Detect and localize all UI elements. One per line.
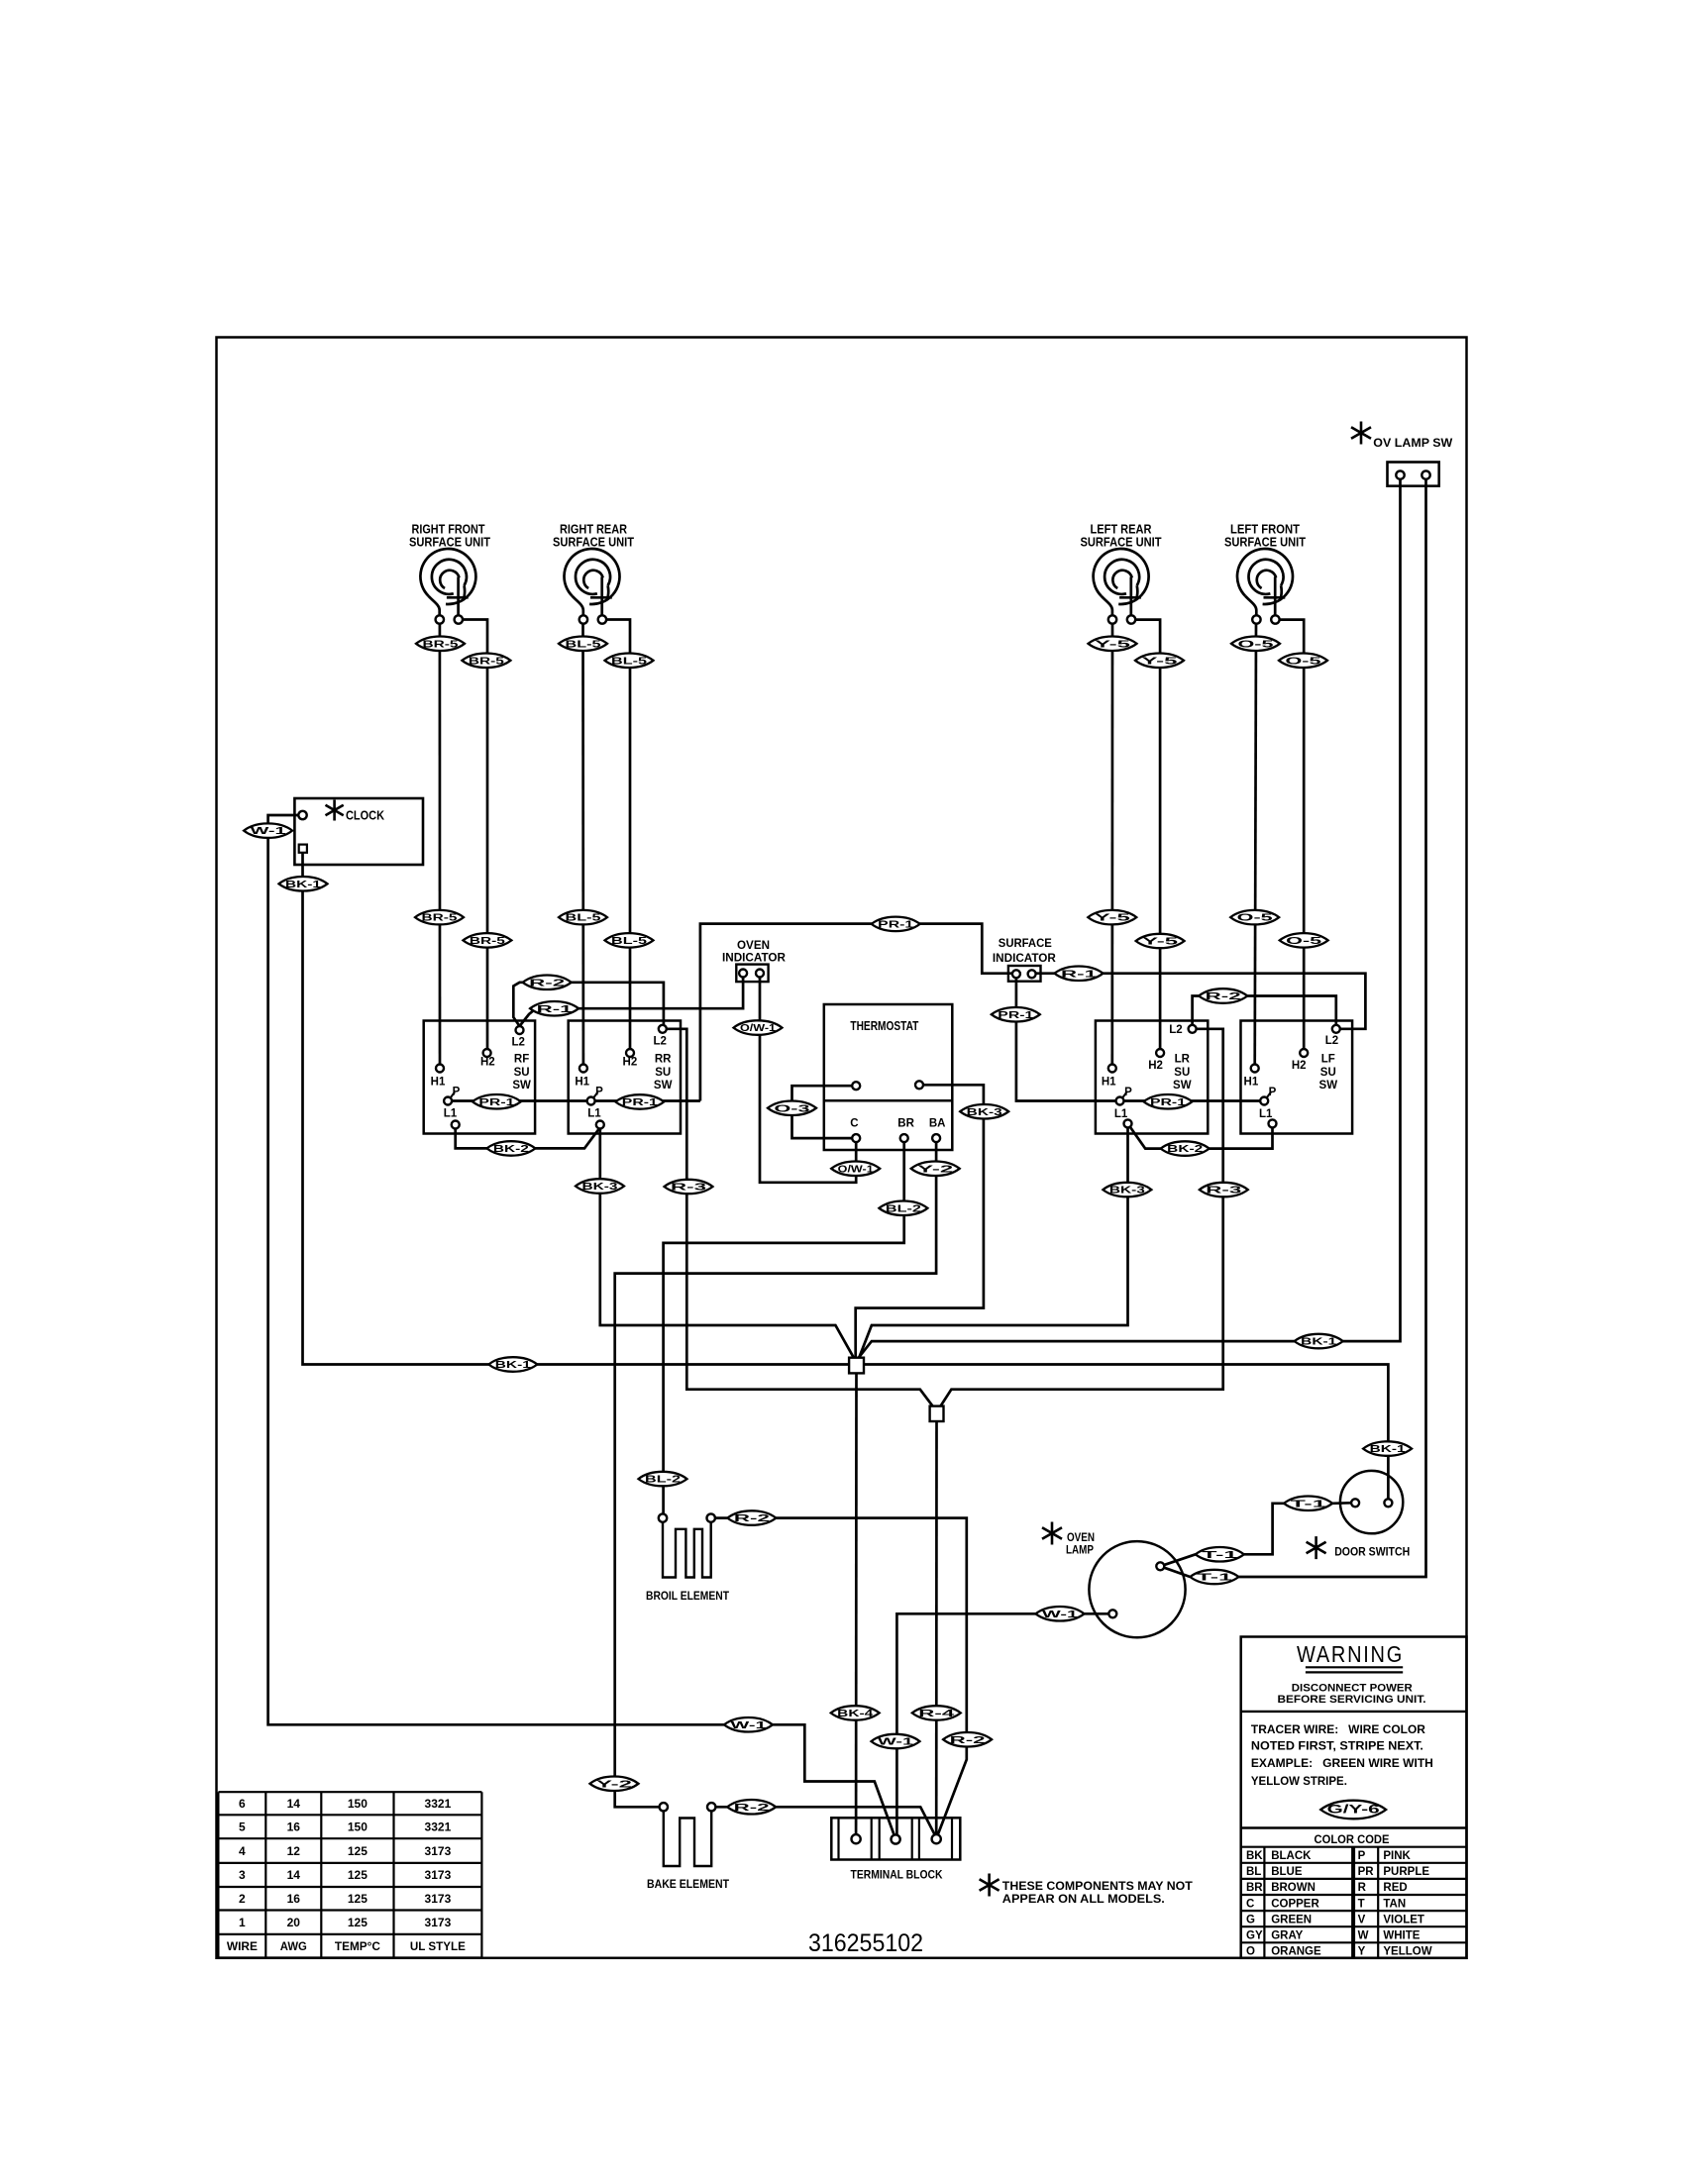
svg-text:BK-1: BK-1 (1301, 1336, 1336, 1348)
wire R-3 from L2 RR to junction node 2 (667, 1029, 933, 1406)
svg-text:3173: 3173 (425, 1892, 452, 1906)
svg-text:6: 6 (239, 1797, 246, 1811)
svg-text:L1: L1 (1114, 1108, 1128, 1120)
capsule label PR-1 top (872, 917, 920, 932)
svg-text:150: 150 (348, 1797, 368, 1811)
svg-text:316255102: 316255102 (808, 1929, 923, 1957)
capsule label BL-5 a (559, 637, 607, 652)
wire BK-1 junction node 1 to oven lamp switch (859, 479, 1401, 1358)
capsule label PR-1 LR (1144, 1094, 1193, 1109)
svg-text:RR: RR (655, 1054, 672, 1066)
asterisk note (980, 1874, 1000, 1897)
svg-text:THERMOSTAT: THERMOSTAT (850, 1019, 918, 1033)
svg-text:PURPLE: PURPLE (1383, 1866, 1429, 1878)
svg-text:CLOCK: CLOCK (346, 809, 384, 823)
svg-text:L1: L1 (587, 1108, 601, 1120)
svg-text:Y-2: Y-2 (596, 1778, 632, 1790)
thermostat upper terminals (852, 1082, 860, 1090)
svg-text:3173: 3173 (425, 1844, 452, 1858)
capsule label W-1 oven lamp (1036, 1607, 1085, 1621)
capsule label Y-5 b (1135, 654, 1184, 669)
capsule label R-1 left (530, 1001, 579, 1016)
LF switch terminals H1 H2 L2 P L1 (1251, 1065, 1259, 1073)
capsule label PR-1 surface indicator (992, 1007, 1040, 1022)
wire PR-1 from surface indicator to P of LR LF (1016, 978, 1260, 1100)
wire BL-5 right-rear H2 (605, 620, 630, 1054)
wire BK-3 thermostat upper-right to junction node 1 (856, 1085, 984, 1357)
asterisk for door switch (1307, 1536, 1326, 1559)
capsule label BR-5 c (415, 910, 464, 925)
svg-text:3173: 3173 (425, 1916, 452, 1929)
svg-text:Y-2: Y-2 (917, 1163, 953, 1175)
wire T-1 diagonal into oven lamp terminal (1160, 1566, 1190, 1577)
svg-text:BK-4: BK-4 (837, 1708, 873, 1719)
capsule label R-3 RF (665, 1180, 713, 1194)
svg-text:BLUE: BLUE (1271, 1866, 1303, 1878)
svg-text:LF: LF (1321, 1054, 1335, 1066)
svg-text:P: P (595, 1087, 603, 1098)
oven indicator box (736, 965, 768, 983)
svg-text:R-2: R-2 (734, 1802, 770, 1814)
svg-text:O/W-1: O/W-1 (740, 1022, 776, 1034)
svg-text:SW: SW (1319, 1080, 1338, 1092)
terminals of RIGHT REAR (579, 615, 587, 623)
svg-text:BR-5: BR-5 (469, 655, 504, 667)
LR switch terminals H1 H2 L2 P L1 (1108, 1065, 1116, 1073)
page border frame (217, 338, 1467, 1958)
wire gauge table (218, 1791, 481, 1793)
wire BK-3 from L1 RR to junction node 1 (600, 1129, 854, 1358)
capsule label T-1 lower (1190, 1570, 1238, 1584)
svg-text:BL-5: BL-5 (566, 638, 601, 650)
svg-text:H1: H1 (1102, 1077, 1116, 1089)
door switch circle (1340, 1471, 1403, 1533)
svg-text:W: W (1358, 1930, 1369, 1942)
surface unit coil RIGHT REAR (565, 549, 620, 604)
svg-text:SW: SW (654, 1080, 673, 1092)
capsule label BK-1 left (488, 1357, 537, 1372)
capsule label BK-1 right (1295, 1334, 1343, 1349)
switch box RF SU SW (424, 1021, 535, 1134)
thermostat internal divider (824, 1099, 953, 1102)
svg-text:3321: 3321 (425, 1797, 452, 1811)
wire BR-5 right-front H2 (463, 620, 487, 1054)
asterisk for oven lamp (1042, 1522, 1062, 1545)
warning panel box (1241, 1637, 1467, 1958)
svg-text:BL-2: BL-2 (886, 1202, 921, 1214)
capsule label R-2 broil (727, 1510, 776, 1525)
capsule label R-2 bake (727, 1800, 776, 1815)
oven lamp terminals (1108, 1610, 1116, 1617)
svg-text:TAN: TAN (1383, 1898, 1406, 1910)
switch box RR SU SW (569, 1021, 681, 1134)
svg-text:3: 3 (239, 1868, 246, 1882)
svg-text:W-1: W-1 (878, 1736, 913, 1748)
svg-text:R-3: R-3 (671, 1182, 706, 1194)
wire BL-2 thermostat BR to broil element (664, 1142, 904, 1514)
svg-text:P: P (1124, 1087, 1132, 1098)
svg-text:BR-5: BR-5 (422, 912, 458, 924)
switch box LR SU SW (1096, 1021, 1208, 1134)
svg-text:R-1: R-1 (1061, 968, 1097, 980)
wire O-5 left-front H2 (1278, 620, 1304, 1053)
svg-text:W-1: W-1 (1042, 1609, 1078, 1620)
capsule label PR-1 RF (473, 1094, 521, 1109)
svg-text:TEMP°C: TEMP°C (335, 1939, 380, 1953)
svg-text:EXAMPLE: GREEN WIRE WITH: EXAMPLE: GREEN WIRE WITH (1251, 1758, 1433, 1770)
capsule label Y-2 bake (590, 1777, 639, 1792)
wire BK-4 junction node 1 down to terminal block (855, 1373, 858, 1835)
svg-text:BA: BA (929, 1118, 946, 1130)
wire R-4 junction node 2 down to terminal block (935, 1421, 938, 1835)
svg-text:WHITE: WHITE (1383, 1930, 1420, 1942)
svg-text:SU: SU (1320, 1067, 1336, 1079)
svg-text:R-2: R-2 (1206, 990, 1241, 1002)
svg-text:SW: SW (512, 1080, 531, 1092)
svg-text:NOTED FIRST, STRIPE NEXT.: NOTED FIRST, STRIPE NEXT. (1251, 1740, 1423, 1752)
svg-text:BK-3: BK-3 (582, 1181, 618, 1193)
wire T-1 oven lamp switch right to oven lamp (1238, 479, 1425, 1577)
capsule label O-3 (768, 1101, 816, 1116)
svg-text:WIRE: WIRE (227, 1939, 258, 1953)
wire R-2 between L2 of LR and LF switches (1193, 996, 1336, 1025)
wire BK-1 from clock across to door switch (303, 853, 1389, 1504)
asterisk for clock (326, 800, 344, 821)
svg-text:BR: BR (1246, 1882, 1263, 1894)
terminals of LEFT REAR (1108, 615, 1116, 623)
terminals of LEFT FRONT (1252, 615, 1260, 623)
capsule label O-5 b (1279, 654, 1327, 669)
svg-text:BK-1: BK-1 (1370, 1443, 1406, 1455)
svg-text:SURFACE: SURFACE (999, 936, 1052, 950)
clock box (294, 798, 423, 865)
svg-text:BK-2: BK-2 (493, 1143, 529, 1155)
svg-text:125: 125 (348, 1844, 368, 1858)
svg-text:16: 16 (287, 1820, 301, 1834)
svg-text:BLACK: BLACK (1271, 1850, 1312, 1862)
RF switch terminals H1 H2 L2 P L1 (436, 1065, 444, 1073)
wire R-1 from L2 of RF to oven indicator (520, 978, 744, 1027)
capsule label W-1 clock (244, 823, 292, 838)
wire W-1 oven lamp to terminal block (896, 1613, 1108, 1835)
svg-text:O-5: O-5 (1237, 912, 1273, 924)
surface unit coil LEFT REAR (1094, 549, 1149, 604)
svg-text:BK: BK (1246, 1850, 1263, 1862)
capsule label BL-2 BR (879, 1201, 927, 1216)
svg-text:LAMP: LAMP (1066, 1543, 1094, 1557)
svg-text:SURFACE UNIT: SURFACE UNIT (1081, 535, 1162, 550)
RR switch terminals H1 H2 L2 P L1 (579, 1065, 587, 1073)
wire PR-1 riser and top run to surface indicator (700, 924, 1012, 1101)
wire R-2 between L2 of RF and RR switches (513, 983, 664, 1026)
capsule label O-5 a (1231, 637, 1280, 652)
surface unit coil LEFT FRONT (1237, 549, 1293, 604)
svg-text:BROWN: BROWN (1271, 1882, 1316, 1894)
svg-text:O-5: O-5 (1286, 655, 1321, 667)
svg-text:Y-5: Y-5 (1095, 638, 1130, 650)
svg-text:SW: SW (1173, 1080, 1192, 1092)
svg-text:L2: L2 (511, 1037, 524, 1049)
svg-text:L1: L1 (1259, 1108, 1273, 1120)
svg-text:BL-5: BL-5 (611, 935, 647, 947)
svg-text:YELLOW STRIPE.: YELLOW STRIPE. (1251, 1776, 1347, 1788)
svg-text:L2: L2 (1169, 1024, 1182, 1036)
svg-text:BL-2: BL-2 (645, 1474, 681, 1486)
svg-text:BROIL ELEMENT: BROIL ELEMENT (646, 1589, 730, 1603)
svg-text:L2: L2 (653, 1036, 666, 1048)
svg-text:12: 12 (287, 1844, 301, 1858)
svg-text:14: 14 (287, 1797, 301, 1811)
broil element (659, 1513, 667, 1521)
bake element (660, 1803, 668, 1811)
capsule label BL-5 d (605, 933, 654, 948)
capsule label O-5 d (1280, 933, 1328, 948)
capsule label BK-3 LR (1103, 1183, 1151, 1197)
svg-text:L2: L2 (1325, 1035, 1338, 1047)
warning divider (1241, 1711, 1467, 1713)
wire R-1 surface indicator to L2 of LF (1036, 974, 1366, 1029)
capsule label BK-4 (831, 1706, 880, 1720)
svg-text:DOOR SWITCH: DOOR SWITCH (1334, 1545, 1410, 1559)
terminal block (831, 1818, 960, 1859)
oven lamp switch OV LAMP SW box (1388, 463, 1439, 486)
svg-text:AWG: AWG (280, 1939, 307, 1953)
svg-text:THESE COMPONENTS MAY NOT: THESE COMPONENTS MAY NOT (1002, 1879, 1194, 1893)
capsule label BR-5 d (463, 933, 511, 948)
svg-text:SU: SU (655, 1067, 671, 1079)
svg-text:125: 125 (348, 1892, 368, 1906)
svg-text:Y: Y (1358, 1946, 1366, 1958)
svg-text:R-2: R-2 (734, 1512, 770, 1524)
wire R-2 bake element to terminal block (715, 1807, 935, 1835)
thermostat box (824, 1004, 953, 1150)
capsule label O/W-1 C (831, 1162, 880, 1177)
svg-text:H2: H2 (1148, 1060, 1163, 1072)
capsule label BL-2 broil (639, 1472, 687, 1487)
svg-text:O-3: O-3 (775, 1102, 810, 1114)
oven indicator terminals (739, 970, 747, 978)
svg-text:BK-3: BK-3 (967, 1106, 1002, 1118)
oven lamp switch terminals (1396, 470, 1404, 478)
svg-text:O: O (1246, 1946, 1255, 1958)
svg-text:R: R (1358, 1882, 1367, 1894)
svg-text:O-5: O-5 (1238, 638, 1274, 650)
capsule label BK-2 right (1161, 1141, 1210, 1156)
capsule label BR-5 b (462, 654, 510, 669)
wire BL-5 right-rear H1 (581, 624, 584, 1069)
svg-text:BR-5: BR-5 (423, 638, 459, 650)
wire T-1 oven lamp to door switch (1160, 1554, 1196, 1566)
wire BK-2 between L1 of LR and LF (1130, 1127, 1273, 1149)
svg-text:T-1: T-1 (1197, 1572, 1232, 1584)
svg-text:H2: H2 (480, 1057, 495, 1069)
svg-text:125: 125 (348, 1868, 368, 1882)
capsule label R-2 left (523, 976, 572, 990)
switch box LF SU SW (1241, 1021, 1353, 1134)
wire Y-2 thermostat BA to bake element (615, 1142, 936, 1807)
svg-text:BK-3: BK-3 (1109, 1185, 1145, 1196)
capsule label R-4 (912, 1706, 961, 1720)
svg-text:3321: 3321 (425, 1820, 452, 1834)
wire O/W-1 thermostat C to oven indicator (760, 978, 856, 1183)
svg-text:R-4: R-4 (918, 1708, 954, 1719)
svg-text:R-2: R-2 (950, 1734, 986, 1746)
svg-text:UL STYLE: UL STYLE (410, 1939, 466, 1953)
svg-text:BR: BR (897, 1118, 914, 1130)
svg-text:PINK: PINK (1383, 1850, 1411, 1862)
capsule label O/W-1 oven indicator (734, 1020, 783, 1035)
capsule label BR-5 a (416, 637, 465, 652)
svg-text:C: C (1246, 1898, 1254, 1910)
svg-text:SU: SU (514, 1067, 530, 1079)
svg-text:R-2: R-2 (529, 977, 565, 988)
svg-text:TRACER WIRE: WIRE COLOR: TRACER WIRE: WIRE COLOR (1251, 1724, 1426, 1736)
svg-text:COPPER: COPPER (1271, 1898, 1319, 1910)
clock terminal square (299, 845, 307, 853)
svg-text:T-1: T-1 (1291, 1498, 1326, 1509)
svg-text:L1: L1 (444, 1108, 458, 1120)
svg-text:16: 16 (287, 1892, 301, 1906)
surface indicator terminals (1012, 970, 1020, 978)
svg-text:PR: PR (1358, 1866, 1375, 1878)
wire O-3 thermostat upper-left to C (792, 1086, 853, 1138)
svg-text:P: P (453, 1087, 461, 1098)
svg-text:PR-1: PR-1 (878, 919, 913, 931)
capsule label T-1 upper (1196, 1547, 1244, 1562)
capsule label R-2 terminal block (943, 1732, 992, 1747)
svg-text:2: 2 (239, 1892, 246, 1906)
svg-text:Y-5: Y-5 (1095, 912, 1130, 924)
clock terminal circle (298, 811, 306, 819)
capsule label R-2 right (1199, 988, 1247, 1003)
capsule label BK-1 clock (279, 877, 328, 891)
door switch terminals (1351, 1499, 1359, 1507)
svg-text:RF: RF (514, 1054, 529, 1066)
svg-text:BK-2: BK-2 (1167, 1143, 1203, 1155)
capsule label T-1 door switch (1284, 1497, 1332, 1511)
wire R-2 broil element to terminal block (715, 1518, 967, 1835)
svg-text:3173: 3173 (425, 1868, 452, 1882)
color code title (1241, 1826, 1467, 1828)
svg-text:COLOR CODE: COLOR CODE (1315, 1834, 1390, 1846)
svg-text:INDICATOR: INDICATOR (722, 951, 786, 965)
junction node 2 square (930, 1406, 944, 1421)
svg-text:G/Y-6: G/Y-6 (1327, 1803, 1381, 1817)
svg-text:BK-1: BK-1 (285, 879, 321, 890)
svg-text:SURFACE UNIT: SURFACE UNIT (409, 535, 490, 550)
capsule label Y-2 BA (911, 1162, 960, 1177)
wire BK-3 from L1 LR to junction node 1 (859, 1127, 1127, 1357)
svg-text:O/W-1: O/W-1 (838, 1163, 874, 1175)
svg-text:APPEAR ON ALL MODELS.: APPEAR ON ALL MODELS. (1002, 1892, 1165, 1906)
wire Y-5 left-rear H1 (1110, 624, 1113, 1069)
svg-text:V: V (1358, 1914, 1366, 1925)
svg-text:PR-1: PR-1 (622, 1096, 658, 1108)
svg-text:PR-1: PR-1 (478, 1096, 514, 1108)
svg-text:H2: H2 (1292, 1060, 1307, 1072)
svg-text:G: G (1246, 1914, 1255, 1925)
svg-text:C: C (850, 1118, 858, 1130)
svg-text:H1: H1 (431, 1077, 446, 1089)
capsule label G/Y-6 example (1320, 1801, 1386, 1820)
thermostat terminals C BR BA (852, 1134, 860, 1142)
oven lamp circle (1089, 1541, 1185, 1637)
svg-text:150: 150 (348, 1820, 368, 1834)
capsule label PR-1 RR (615, 1094, 664, 1109)
svg-text:14: 14 (287, 1868, 301, 1882)
terminals of RIGHT FRONT (436, 615, 444, 623)
svg-text:4: 4 (239, 1844, 246, 1858)
junction node 1 square (849, 1358, 864, 1374)
capsule label BL-5 b (605, 654, 654, 669)
svg-text:PR-1: PR-1 (1150, 1096, 1186, 1108)
svg-text:BK-1: BK-1 (495, 1359, 531, 1371)
capsule label BK-3 RR (576, 1179, 624, 1194)
wire O-5 left-front H1 (1255, 624, 1256, 1069)
wire W-1 from clock to terminal block (268, 815, 895, 1837)
svg-text:BR-5: BR-5 (470, 935, 505, 947)
wire R-3 from L2 LR to junction node 2 (941, 1029, 1223, 1406)
capsule label W-1 terminal block (872, 1734, 920, 1749)
svg-text:BL-5: BL-5 (566, 912, 601, 924)
svg-text:RED: RED (1383, 1882, 1407, 1894)
capsule label BK-1 door switch (1363, 1441, 1412, 1456)
svg-text:SURFACE UNIT: SURFACE UNIT (1224, 535, 1306, 550)
capsule label O-5 c (1230, 910, 1279, 925)
svg-text:GY: GY (1246, 1930, 1263, 1942)
capsule label Y-5 a (1089, 637, 1137, 652)
wire BR-5 right-front H1 (439, 624, 442, 1069)
svg-text:H1: H1 (1244, 1077, 1259, 1089)
svg-text:5: 5 (239, 1820, 246, 1834)
svg-text:TERMINAL BLOCK: TERMINAL BLOCK (851, 1868, 943, 1882)
capsule label R-1 right (1055, 967, 1104, 982)
svg-text:BAKE ELEMENT: BAKE ELEMENT (647, 1877, 730, 1891)
surface unit coil RIGHT FRONT (420, 549, 475, 604)
svg-text:VIOLET: VIOLET (1383, 1914, 1424, 1925)
asterisk for OV LAMP SW (1351, 422, 1371, 445)
svg-text:O-5: O-5 (1286, 935, 1321, 947)
svg-text:R-3: R-3 (1206, 1185, 1241, 1196)
svg-text:ORANGE: ORANGE (1271, 1946, 1321, 1958)
svg-text:Y-5: Y-5 (1142, 655, 1178, 667)
svg-text:INDICATOR: INDICATOR (993, 951, 1056, 965)
svg-text:W-1: W-1 (251, 825, 286, 837)
svg-text:SU: SU (1174, 1067, 1190, 1079)
svg-text:1: 1 (239, 1916, 246, 1929)
wire PR-1 P terminals RF RR (452, 1099, 700, 1102)
svg-text:BEFORE SERVICING UNIT.: BEFORE SERVICING UNIT. (1278, 1694, 1426, 1706)
svg-text:P: P (1269, 1087, 1277, 1098)
svg-text:DISCONNECT POWER: DISCONNECT POWER (1292, 1683, 1413, 1695)
svg-text:P: P (1358, 1850, 1366, 1862)
capsule label Y-5 d (1136, 934, 1185, 948)
svg-text:H2: H2 (623, 1057, 638, 1069)
svg-text:W-1: W-1 (731, 1719, 767, 1731)
svg-text:T-1: T-1 (1202, 1549, 1237, 1561)
svg-text:BL-5: BL-5 (611, 655, 647, 667)
svg-text:BL: BL (1246, 1866, 1261, 1878)
svg-text:SURFACE UNIT: SURFACE UNIT (553, 535, 634, 550)
svg-text:GREEN: GREEN (1271, 1914, 1312, 1925)
wire BK-2 between L1 of RF and RR (456, 1129, 599, 1149)
wire Y-5 left-rear H2 (1134, 620, 1161, 1053)
svg-text:R-1: R-1 (537, 1003, 573, 1015)
svg-text:YELLOW: YELLOW (1383, 1946, 1431, 1958)
capsule label BK-2 left (486, 1141, 535, 1156)
svg-text:T: T (1358, 1898, 1365, 1910)
svg-text:Y-5: Y-5 (1142, 936, 1178, 948)
